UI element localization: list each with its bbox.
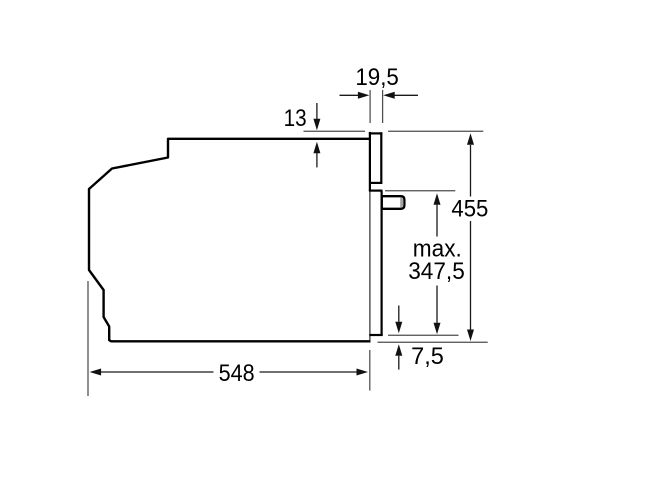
panel groove top edge [370,182,383,184]
oven body outline [89,139,371,341]
dimension 7,5 up arrow [395,344,402,369]
dimension 548 right extension line [369,350,371,391]
front panel left edge lower [369,191,371,340]
front panel top edge [369,132,383,134]
dimension 7,5 label [411,343,444,370]
svg-text:13: 13 [284,105,307,132]
svg-text:455: 455 [451,196,488,223]
dimension 13 down arrow [313,103,320,130]
panel groove bottom edge [369,190,383,192]
dimension 455 label [451,196,488,223]
dimension 7,5 down arrow [395,306,402,334]
dimension 455 bottom extension line [378,341,488,343]
front panel right edge lower [381,191,383,336]
front panel right edge upper [380,132,382,182]
front panel bottom edge [369,334,382,336]
dimension 347,5 lower arrow [434,286,441,335]
svg-text:7,5: 7,5 [411,343,444,370]
dimension 455 upper arrow [467,133,474,196]
dimension 548 right arrow [260,369,369,376]
dimension 347,5 upper arrow [434,193,441,236]
dimension 347,5 top extension line [385,190,455,192]
svg-text:19,5: 19,5 [355,64,399,91]
dimension 13 up arrow [313,142,320,168]
dimension 19,5 extension line right [382,90,384,123]
dimension 13 extension line [304,130,366,132]
dimension 19,5 extension line left [369,90,371,123]
dimension 455 top extension line [388,130,483,132]
dimension 19,5 label [355,64,399,91]
dimension 548 label [219,360,255,387]
dimension 347,5 bottom extension line [388,334,459,336]
dimension 347,5 label line 2 [408,258,465,285]
door handle [382,196,405,209]
svg-text:347,5: 347,5 [408,258,465,285]
dimension 13 label [284,105,307,132]
dimension 548 left arrow [90,369,214,376]
dimension 19,5 left arrow [340,92,370,99]
dimension 548 left extension line [87,281,89,396]
svg-text:548: 548 [219,360,255,387]
front panel left edge upper [369,132,371,191]
dimension 347,5 label line 1 [413,236,462,263]
dimension 455 lower arrow [467,221,474,341]
dimension 19,5 right arrow [383,92,418,99]
